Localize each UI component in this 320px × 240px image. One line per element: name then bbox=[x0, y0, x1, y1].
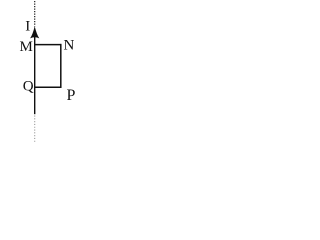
svg-text:N: N bbox=[64, 37, 75, 53]
svg-text:Q: Q bbox=[23, 78, 34, 94]
svg-text:P: P bbox=[67, 87, 76, 104]
svg-text:I: I bbox=[25, 19, 30, 35]
svg-text:M: M bbox=[20, 39, 33, 55]
